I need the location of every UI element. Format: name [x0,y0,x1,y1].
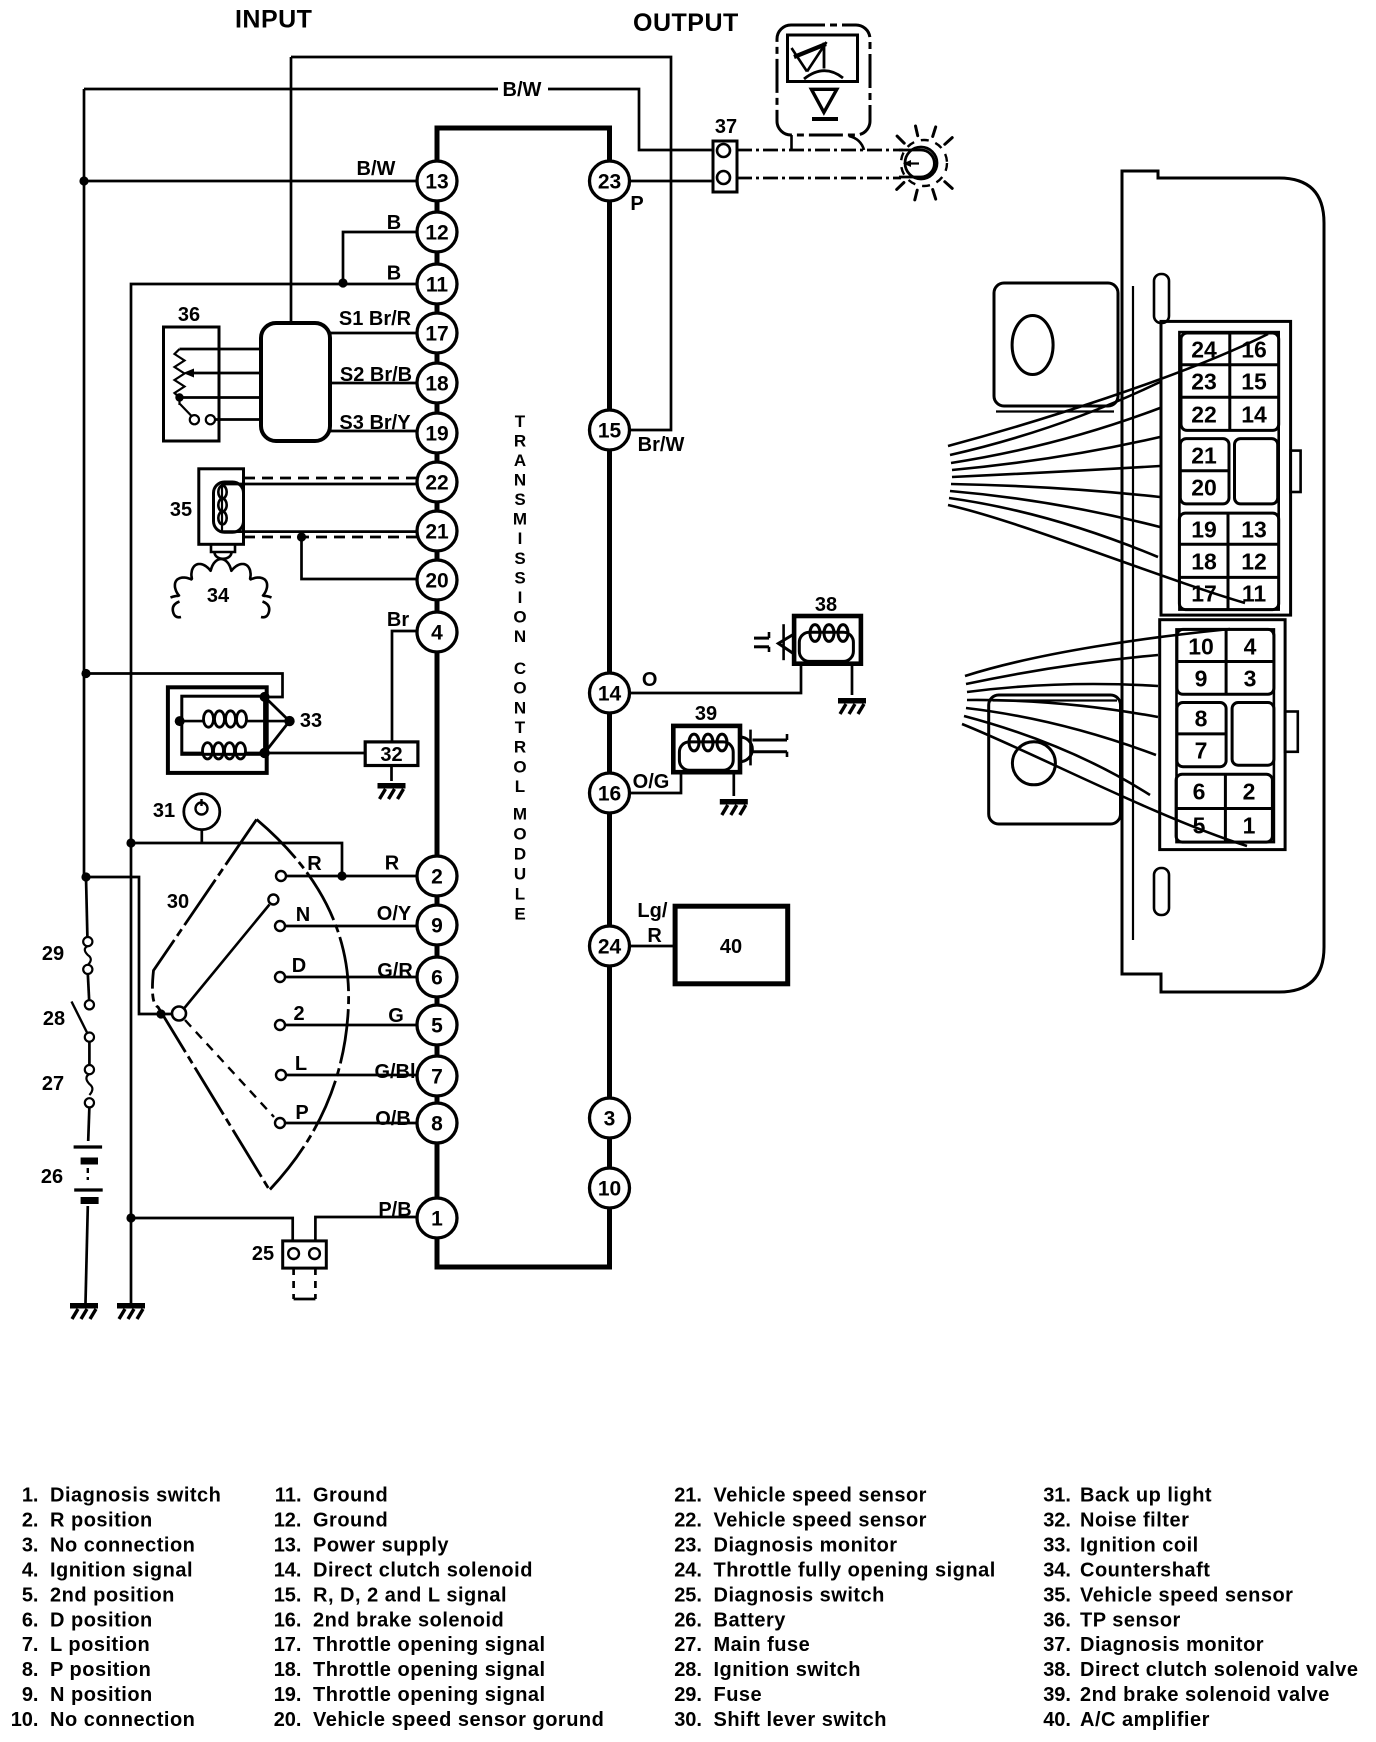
svg-text:18.: 18. [274,1659,302,1681]
svg-text:28.: 28. [674,1659,702,1681]
svg-text:O: O [513,679,526,698]
svg-text:22.: 22. [674,1509,702,1531]
svg-text:1.: 1. [22,1485,39,1507]
svg-text:37: 37 [715,116,737,138]
svg-text:20: 20 [1191,474,1217,500]
svg-text:34: 34 [207,585,230,607]
svg-text:9.: 9. [22,1684,39,1706]
svg-text:OUTPUT: OUTPUT [633,9,739,37]
svg-text:D: D [514,845,526,864]
svg-text:Diagnosis monitor: Diagnosis monitor [1080,1634,1264,1656]
svg-text:32.: 32. [1043,1509,1071,1531]
svg-text:O/B: O/B [375,1108,411,1130]
svg-text:P position: P position [50,1659,151,1681]
svg-text:2nd brake solenoid valve: 2nd brake solenoid valve [1080,1684,1330,1706]
svg-text:6: 6 [431,967,443,990]
svg-text:Noise filter: Noise filter [1080,1509,1189,1531]
svg-text:38: 38 [815,594,837,616]
svg-text:9: 9 [1195,665,1208,691]
svg-text:1: 1 [1243,812,1256,838]
svg-text:Br: Br [387,609,409,631]
svg-text:Ground: Ground [313,1509,388,1531]
svg-text:Throttle opening signal: Throttle opening signal [313,1634,546,1656]
svg-text:15: 15 [1241,368,1267,394]
svg-text:S3 Br/Y: S3 Br/Y [339,412,411,434]
svg-text:1: 1 [431,1208,443,1231]
svg-text:P/B: P/B [378,1199,411,1221]
svg-text:19: 19 [1191,516,1217,542]
svg-text:7: 7 [431,1066,443,1089]
svg-text:Vehicle speed sensor gorund: Vehicle speed sensor gorund [313,1709,604,1731]
svg-text:29: 29 [42,943,64,965]
svg-text:Diagnosis switch: Diagnosis switch [714,1584,885,1606]
svg-text:Power supply: Power supply [313,1534,449,1556]
svg-text:A/C amplifier: A/C amplifier [1080,1709,1210,1731]
svg-text:8: 8 [431,1113,443,1136]
svg-text:2nd position: 2nd position [50,1584,175,1606]
svg-text:R, D, 2 and L signal: R, D, 2 and L signal [313,1584,507,1606]
svg-text:Ignition signal: Ignition signal [50,1559,193,1581]
svg-text:B/W: B/W [357,158,396,180]
svg-text:11.: 11. [275,1485,302,1507]
svg-text:N: N [514,698,526,717]
svg-text:17: 17 [425,323,448,346]
svg-text:L: L [295,1053,307,1075]
svg-text:14: 14 [1241,401,1267,427]
svg-text:4: 4 [431,622,443,645]
svg-text:25: 25 [252,1243,274,1265]
svg-text:2: 2 [293,1003,304,1025]
svg-text:No connection: No connection [50,1534,195,1556]
svg-text:27.: 27. [674,1634,702,1656]
svg-text:O: O [513,825,526,844]
svg-text:Lg/: Lg/ [637,900,667,922]
svg-text:12: 12 [1241,548,1267,574]
svg-text:16: 16 [598,783,621,806]
svg-text:21.: 21. [674,1485,702,1507]
svg-text:31: 31 [153,800,175,822]
svg-text:37.: 37. [1043,1634,1071,1656]
svg-text:Battery: Battery [714,1609,787,1631]
svg-text:36.: 36. [1043,1609,1071,1631]
svg-text:9: 9 [431,915,443,938]
svg-text:36: 36 [178,304,200,326]
svg-text:39: 39 [695,703,717,725]
svg-text:27: 27 [42,1073,64,1095]
svg-text:C: C [514,659,526,678]
svg-text:O: O [513,607,526,626]
svg-text:R: R [307,853,322,875]
svg-text:Ignition switch: Ignition switch [714,1659,862,1681]
svg-text:Vehicle speed sensor: Vehicle speed sensor [1080,1584,1293,1606]
svg-text:G/R: G/R [377,960,413,982]
svg-text:10: 10 [1188,633,1214,659]
svg-text:11: 11 [426,274,449,297]
svg-text:Diagnosis switch: Diagnosis switch [50,1485,221,1507]
svg-text:B: B [387,212,401,234]
svg-text:S1 Br/R: S1 Br/R [339,308,412,330]
svg-text:B: B [387,263,401,285]
svg-text:2.: 2. [22,1509,39,1531]
svg-text:D position: D position [50,1609,153,1631]
svg-text:Throttle opening signal: Throttle opening signal [313,1684,546,1706]
svg-text:Vehicle speed sensor: Vehicle speed sensor [714,1485,927,1507]
svg-text:M: M [513,510,527,529]
svg-text:17.: 17. [274,1634,302,1656]
svg-text:22: 22 [425,472,448,495]
svg-text:8.: 8. [22,1659,39,1681]
svg-text:6.: 6. [22,1609,39,1631]
svg-text:21: 21 [1191,442,1217,468]
svg-text:5: 5 [431,1015,443,1038]
svg-text:31.: 31. [1043,1485,1071,1507]
svg-text:26: 26 [41,1166,63,1188]
svg-text:R: R [514,738,526,757]
svg-text:30.: 30. [674,1709,702,1731]
svg-text:14: 14 [598,683,622,706]
svg-text:38.: 38. [1043,1659,1071,1681]
svg-text:29.: 29. [674,1684,702,1706]
svg-text:30: 30 [167,891,189,913]
svg-text:Back up light: Back up light [1080,1485,1212,1507]
svg-text:Shift lever switch: Shift lever switch [714,1709,888,1731]
svg-text:E: E [514,905,525,924]
svg-text:INPUT: INPUT [235,6,313,34]
svg-text:Countershaft: Countershaft [1080,1559,1210,1581]
svg-text:22: 22 [1191,401,1217,427]
svg-text:S2 Br/B: S2 Br/B [340,364,412,386]
svg-text:R: R [385,853,400,875]
svg-text:35.: 35. [1043,1584,1071,1606]
svg-text:A: A [514,451,526,470]
svg-text:3: 3 [1244,665,1257,691]
svg-text:G/Bl: G/Bl [374,1061,415,1083]
svg-text:D: D [292,955,306,977]
svg-text:23.: 23. [674,1534,702,1556]
svg-text:35: 35 [170,499,192,521]
svg-text:P: P [630,193,643,215]
svg-text:14.: 14. [274,1559,302,1581]
svg-text:2: 2 [431,866,443,889]
svg-text:19: 19 [425,423,448,446]
svg-text:G: G [388,1005,404,1027]
svg-text:S: S [514,549,525,568]
svg-text:13: 13 [425,171,448,194]
svg-text:6: 6 [1193,778,1206,804]
svg-text:5.: 5. [22,1584,39,1606]
svg-text:7: 7 [1195,737,1208,763]
svg-text:40.: 40. [1043,1709,1071,1731]
svg-text:34.: 34. [1043,1559,1071,1581]
svg-text:M: M [513,805,527,824]
svg-text:13: 13 [1241,516,1267,542]
svg-text:O: O [513,757,526,776]
svg-text:Direct clutch solenoid: Direct clutch solenoid [313,1559,533,1581]
svg-text:26.: 26. [674,1609,702,1631]
svg-text:15.: 15. [274,1584,302,1606]
svg-text:T: T [515,412,526,431]
svg-text:R: R [514,431,526,450]
svg-text:33: 33 [300,710,322,732]
svg-text:T: T [515,718,526,737]
svg-text:11: 11 [1242,580,1267,606]
svg-text:I: I [518,588,523,607]
svg-text:O: O [642,669,658,691]
svg-text:16.: 16. [274,1609,302,1631]
svg-text:Br/W: Br/W [638,434,685,456]
svg-text:Throttle fully opening signal: Throttle fully opening signal [714,1559,996,1581]
svg-text:N: N [514,627,526,646]
svg-text:13.: 13. [274,1534,302,1556]
svg-text:18: 18 [425,373,449,396]
svg-text:Direct clutch solenoid valve: Direct clutch solenoid valve [1080,1659,1359,1681]
svg-text:20.: 20. [274,1709,302,1731]
svg-text:R: R [647,925,662,947]
svg-text:I: I [518,529,523,548]
svg-text:4.: 4. [22,1559,39,1581]
svg-text:15: 15 [598,420,622,443]
svg-text:24: 24 [598,936,622,959]
svg-text:No connection: No connection [50,1709,195,1731]
svg-text:Ground: Ground [313,1485,388,1507]
svg-text:28: 28 [43,1008,65,1030]
svg-text:S: S [514,568,525,587]
svg-text:3: 3 [604,1108,616,1131]
svg-text:L position: L position [50,1634,150,1656]
svg-text:3.: 3. [22,1534,39,1556]
svg-text:U: U [514,865,526,884]
svg-text:N position: N position [50,1684,153,1706]
svg-text:10: 10 [598,1178,621,1201]
svg-text:39.: 39. [1043,1684,1071,1706]
svg-text:21: 21 [425,521,449,544]
svg-text:Diagnosis monitor: Diagnosis monitor [714,1534,898,1556]
svg-text:23: 23 [1191,368,1217,394]
svg-text:Throttle opening signal: Throttle opening signal [313,1659,546,1681]
svg-text:19.: 19. [274,1684,302,1706]
svg-text:N: N [514,471,526,490]
svg-text:12: 12 [425,222,448,245]
svg-text:O/Y: O/Y [377,903,412,925]
svg-text:N: N [296,904,310,926]
svg-text:20: 20 [425,570,448,593]
svg-text:5: 5 [1193,812,1206,838]
svg-text:TP sensor: TP sensor [1080,1609,1181,1631]
svg-text:B/W: B/W [503,79,542,101]
svg-text:7.: 7. [22,1634,39,1656]
svg-text:24.: 24. [674,1559,702,1581]
svg-text:P: P [295,1102,308,1124]
svg-text:10.: 10. [11,1709,39,1731]
svg-text:S: S [514,490,525,509]
svg-text:O/G: O/G [633,771,670,793]
svg-text:Ignition coil: Ignition coil [1080,1534,1199,1556]
svg-text:R position: R position [50,1509,153,1531]
svg-text:32: 32 [380,744,402,766]
svg-text:L: L [515,777,525,796]
svg-text:L: L [515,885,525,904]
svg-text:Fuse: Fuse [714,1684,763,1706]
svg-text:25.: 25. [674,1584,702,1606]
svg-text:12.: 12. [274,1509,302,1531]
svg-text:8: 8 [1195,705,1208,731]
svg-text:18: 18 [1191,548,1217,574]
svg-text:2nd brake solenoid: 2nd brake solenoid [313,1609,504,1631]
svg-text:2: 2 [1243,778,1256,804]
svg-text:33.: 33. [1043,1534,1071,1556]
svg-text:40: 40 [720,936,742,958]
svg-text:23: 23 [598,171,621,194]
svg-text:Vehicle speed sensor: Vehicle speed sensor [714,1509,927,1531]
svg-text:4: 4 [1244,633,1257,659]
svg-text:Main fuse: Main fuse [714,1634,811,1656]
